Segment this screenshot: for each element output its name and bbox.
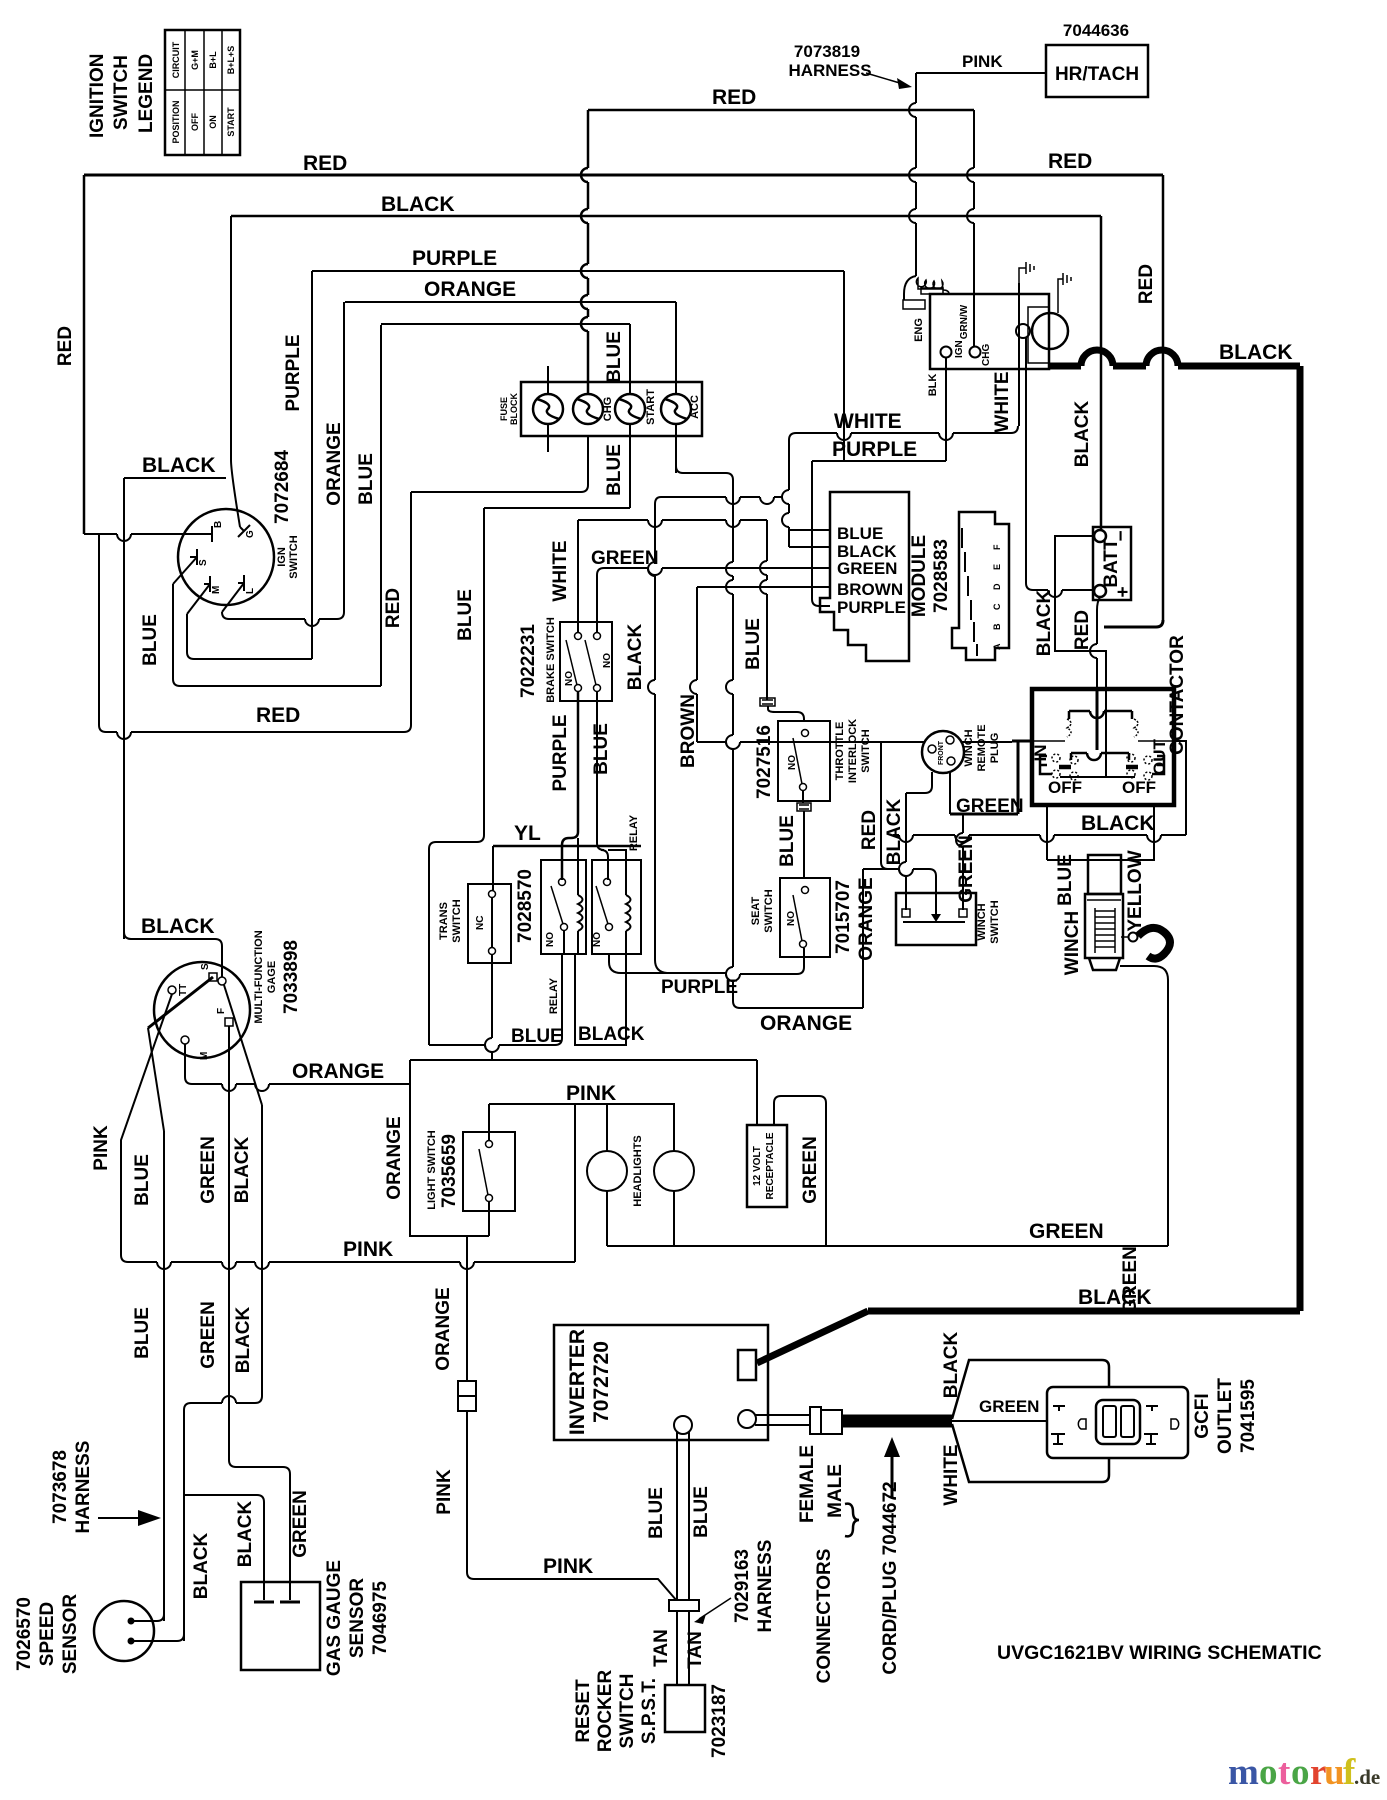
thick BLACK engine cable with humps [1049, 350, 1300, 366]
svg-text:RED: RED [55, 326, 76, 366]
svg-text:ORANGE: ORANGE [856, 877, 877, 960]
wire IN extension [1012, 740, 1032, 743]
wire light switch bottom [488, 1201, 490, 1236]
svg-text:IGN: IGN [954, 340, 965, 358]
wire ORANGE y1084 with hops [192, 1084, 409, 1091]
svg-text:INVERTER: INVERTER [566, 1329, 589, 1435]
wire PURPLE y461 [812, 460, 946, 462]
svg-text:SWITCH: SWITCH [111, 55, 132, 130]
fuse 4 line [675, 302, 677, 473]
svg-text:PINK: PINK [566, 1082, 616, 1105]
wire BLUE trans x429 [428, 849, 430, 1045]
svg-text:o: o [1259, 1752, 1278, 1793]
svg-text:HARNESS: HARNESS [73, 1441, 94, 1534]
wire long horizontal y1059 [410, 1059, 757, 1061]
wire BLUE trans feed x484 [477, 508, 484, 842]
wire plug left pin down [925, 772, 932, 793]
wire WHITE vertical x789 with hops [782, 440, 789, 547]
relay 1 contacts [545, 879, 568, 948]
contactor OUT line [1138, 740, 1174, 742]
svg-text:BLACK: BLACK [232, 1136, 253, 1203]
wire relay1 coil top [577, 838, 579, 866]
svg-text:7046975: 7046975 [370, 1581, 391, 1655]
svg-text:G+M: G+M [190, 50, 200, 70]
wire PURPLE y659 [194, 658, 312, 660]
svg-text:S: S [198, 559, 209, 566]
svg-text:7033898: 7033898 [281, 940, 302, 1014]
svg-text:L: L [245, 588, 256, 594]
svg-text:BLUE: BLUE [511, 1026, 563, 1047]
relay 2 box [592, 860, 641, 954]
gas gauge labels [324, 1560, 391, 1676]
svg-text:BLUE: BLUE [455, 589, 476, 641]
svg-text:S: S [200, 963, 211, 970]
svg-text:ORANGE: ORANGE [433, 1287, 454, 1370]
svg-text:BROWN: BROWN [837, 580, 903, 599]
svg-text:.de: .de [1354, 1765, 1380, 1789]
wire WHITE y520 with hops [578, 520, 767, 527]
svg-text:SWITCH: SWITCH [860, 729, 872, 772]
svg-text:RED: RED [1048, 150, 1092, 173]
svg-text:SWITCH: SWITCH [288, 535, 300, 578]
trans switch contacts [489, 891, 496, 955]
headlight 2 [654, 1104, 694, 1246]
svg-text:RED: RED [256, 704, 300, 727]
svg-text:MULTI-FUNCTION: MULTI-FUNCTION [253, 930, 265, 1023]
wire GREEN y568 with hops [604, 568, 830, 575]
svg-text:+: + [1113, 586, 1134, 597]
svg-text:LEGEND: LEGEND [136, 54, 157, 133]
wire BLACK batt elbow [1096, 531, 1101, 536]
svg-text:BLUE: BLUE [140, 614, 161, 666]
wire PURPLE module pin line [819, 605, 830, 607]
fuse 1 [533, 394, 563, 424]
wire PINK x467 down [467, 1411, 474, 1579]
battery minus terminal [1094, 530, 1106, 542]
module connector pin letters [992, 544, 1002, 650]
wire ORANGE from L diagonal [222, 583, 244, 612]
gage terminal M [181, 1036, 210, 1060]
wire BLACK winch bus y835 with hops [893, 835, 1186, 842]
gcfi labels [1192, 1378, 1259, 1454]
svg-text:BLACK: BLACK [1034, 589, 1055, 656]
svg-text:B+L: B+L [208, 51, 218, 69]
svg-text:7028570: 7028570 [515, 869, 536, 943]
svg-text:D: D [992, 583, 1002, 590]
wire BLACK module pin line [789, 546, 830, 548]
wire GREEN gcfi [952, 1420, 1047, 1422]
svg-text:FEMALE: FEMALE [797, 1445, 818, 1523]
svg-text:IGNITION: IGNITION [87, 54, 108, 138]
wire GREEN gas jog [229, 1460, 290, 1600]
wire GREEN brake x597 [596, 575, 598, 633]
wire trans bottom with hop [485, 955, 492, 1059]
fuse 3 [615, 394, 645, 424]
svg-text:WHITE: WHITE [550, 540, 571, 601]
headlight 1 [587, 1104, 627, 1246]
winch switch box [896, 893, 976, 945]
relay 2 coil [626, 895, 631, 931]
wire ORANGE x467 down [466, 1236, 468, 1381]
svg-text:BLUE: BLUE [743, 618, 764, 670]
svg-text:F: F [216, 1008, 227, 1014]
svg-text:NC: NC [475, 916, 486, 930]
wire ORANGE winch y869 with hop [863, 869, 936, 915]
wire BLACK x655 elbow [655, 497, 661, 504]
wire GREEN 12v loop [774, 1096, 826, 1246]
gage terminal TT [168, 984, 189, 996]
wire BLUE pair vertical [677, 1432, 689, 1600]
svg-text:GREEN: GREEN [198, 1136, 219, 1204]
wire charge y590 with hop [1026, 583, 1094, 597]
winch hook [1121, 928, 1170, 959]
winch switch label [976, 900, 1001, 943]
svg-text:BROWN: BROWN [678, 694, 699, 768]
wire BLACK jog y1403 with hop [184, 1105, 262, 1641]
svg-text:BLACK: BLACK [1072, 400, 1093, 467]
wire engine chg vertical x974 with hops [967, 110, 974, 347]
contactor coil right [1134, 719, 1138, 737]
svg-text:RELAY: RELAY [628, 814, 640, 851]
ignition switch legend title [87, 54, 157, 138]
svg-text:PINK: PINK [543, 1555, 593, 1578]
wire BLACK module y497 with hops [661, 497, 782, 504]
svg-text:OFF: OFF [1048, 778, 1082, 797]
wire PINK y1262 with hops [121, 1255, 575, 1269]
wire ORANGE bus [345, 301, 676, 303]
wire RED engine feed top [588, 109, 974, 112]
wire WHITE engine x1019 [1018, 283, 1020, 426]
light switch contacts [479, 1141, 493, 1202]
ign terminal S [190, 549, 209, 566]
wire ORANGE y1008 [740, 1007, 863, 1009]
inverter output lines to connectors [755, 1415, 812, 1425]
module pin labels [837, 524, 906, 617]
svg-text:BLACK: BLACK [235, 1500, 256, 1567]
svg-text:7041595: 7041595 [1238, 1379, 1259, 1453]
wire relay2 coil top [608, 850, 626, 866]
svg-text:RECEPTACLE: RECEPTACLE [765, 1132, 776, 1199]
svg-text:NO: NO [545, 932, 556, 947]
svg-text:POSITION: POSITION [171, 100, 181, 143]
wire ACC fuse4 down [676, 436, 683, 473]
svg-text:BLOCK: BLOCK [509, 393, 519, 425]
engine CHG terminal [970, 344, 993, 366]
light switch labels [426, 1130, 460, 1209]
wire RED right vertical x1163 [1162, 175, 1165, 620]
svg-text:PINK: PINK [343, 1238, 393, 1261]
svg-text:TRANS: TRANS [438, 902, 450, 940]
wire PURPLE y974 with hop [667, 973, 797, 981]
svg-text:GRN/W: GRN/W [959, 304, 970, 339]
svg-text:F: F [992, 544, 1002, 550]
wire GREEN bottom y1246 [826, 1245, 1168, 1247]
wire B feed y534 with hop [84, 534, 206, 541]
12 volt receptacle box [747, 1125, 787, 1207]
wire relay1 out down [555, 931, 564, 1045]
svg-text:u: u [1324, 1752, 1345, 1793]
svg-text:PINK: PINK [962, 52, 1003, 71]
light switch box [463, 1132, 515, 1211]
svg-text:HR/TACH: HR/TACH [1055, 64, 1139, 85]
cord plug label [880, 1437, 901, 1675]
fuse block label [499, 393, 519, 425]
wire PURPLE x187 [187, 614, 194, 659]
svg-text:BLACK: BLACK [381, 193, 455, 216]
inverter dc output terminal [674, 1416, 692, 1434]
svg-text:MALE: MALE [825, 1464, 846, 1518]
wire BLACK winch sw x906 with hop [899, 793, 906, 910]
svg-text:BLACK: BLACK [233, 1306, 254, 1373]
svg-text:BLUE: BLUE [132, 1154, 153, 1206]
contactor IN line [1032, 740, 1065, 742]
ign terminal B [206, 521, 224, 542]
wire WHITE brake x578 [577, 520, 579, 633]
svg-text:CIRCUIT: CIRCUIT [171, 41, 181, 78]
svg-text:ENG: ENG [913, 318, 925, 342]
svg-text:BLUE: BLUE [646, 1487, 667, 1539]
svg-text:PURPLE: PURPLE [661, 977, 738, 998]
seat switch labels [750, 880, 854, 954]
svg-text:−: − [1111, 530, 1132, 541]
wire relay2 curve to purple [609, 954, 667, 973]
svg-text:MODULE: MODULE [909, 535, 930, 617]
winch motor [1085, 855, 1123, 970]
svg-text:m: m [1228, 1752, 1259, 1793]
svg-text:GREEN: GREEN [198, 1301, 219, 1369]
svg-text:WINCH: WINCH [1062, 911, 1083, 975]
contactor box [1032, 689, 1174, 805]
svg-text:G: G [245, 530, 256, 538]
svg-text:E: E [992, 564, 1002, 570]
svg-text:PLUG: PLUG [989, 733, 1001, 764]
svg-text:RED: RED [383, 588, 404, 628]
connector male [821, 1410, 842, 1434]
wire charge x1026 [1025, 338, 1027, 583]
brake switch label [518, 617, 613, 703]
fuse 3 line [629, 324, 631, 508]
inline fuse connector [458, 1381, 476, 1411]
svg-text:RED: RED [859, 810, 880, 850]
wire WHITE y433 with hops [796, 426, 1018, 440]
svg-text:SWITCH: SWITCH [763, 889, 775, 932]
wire BLUE brake down x597 [596, 692, 598, 843]
wire winch motor bar y860 [1047, 859, 1155, 861]
svg-text:START: START [645, 389, 657, 425]
svg-text:PURPLE: PURPLE [283, 334, 304, 411]
HR/TACH box [1046, 45, 1148, 97]
svg-text:TT: TT [178, 984, 189, 996]
svg-text:BLACK: BLACK [1081, 812, 1155, 835]
svg-text:ORANGE: ORANGE [384, 1116, 405, 1199]
wire WHITE elbow x789 [789, 433, 796, 440]
svg-text:NO: NO [786, 911, 797, 926]
wire PURPLE brake down x578 [577, 692, 580, 832]
svg-text:OFF: OFF [1122, 778, 1156, 797]
speed sensor pins [128, 1614, 185, 1645]
trans switch labels [438, 899, 486, 942]
speed sensor circle [94, 1601, 154, 1661]
wire BLUE fuse2 down [581, 436, 588, 492]
contactor mid bar with dip [1071, 753, 1129, 760]
wire ORANGE winch x863 [862, 869, 864, 1008]
wire PINK y1579 [474, 1579, 677, 1601]
svg-text:7015707: 7015707 [833, 880, 854, 954]
svg-text:BLUE: BLUE [591, 723, 612, 775]
relay 1 box [541, 860, 586, 954]
svg-text:C: C [992, 603, 1002, 610]
wire BLUE gage diagonal [148, 977, 213, 1028]
wire BLUE x164 down [163, 1131, 165, 1621]
svg-text:THROTTLE: THROTTLE [834, 722, 846, 781]
svg-text:7026570: 7026570 [14, 1597, 35, 1671]
svg-text:PINK: PINK [434, 1469, 455, 1515]
svg-text:BLUE: BLUE [691, 1486, 712, 1538]
svg-text:BRAKE SWITCH: BRAKE SWITCH [545, 617, 557, 703]
svg-text:A: A [992, 643, 1002, 650]
seat switch box [780, 878, 830, 957]
svg-text:BLACK: BLACK [191, 1532, 212, 1599]
winch switch contacts [902, 909, 967, 922]
thick BLACK right vertical [1297, 366, 1304, 1311]
wire BLUE from S diagonal [173, 557, 197, 584]
wire GREEN winch sw x963 with hop [956, 814, 963, 910]
wire BLUE relay jog [597, 843, 608, 880]
wire BLACK ign y478 [124, 477, 226, 479]
svg-text:WHITE: WHITE [992, 371, 1013, 432]
svg-text:7029163: 7029163 [732, 1549, 753, 1623]
wire BLACK gcfi [952, 1360, 1109, 1419]
ign switch circle [178, 509, 274, 605]
svg-text:BLUE: BLUE [1055, 854, 1076, 906]
wire BLUE x173 [173, 584, 180, 686]
wire BLACK thick bottom y1311 [868, 1308, 1300, 1315]
wire RED branch x99 [99, 534, 106, 732]
svg-text:GREEN: GREEN [290, 1490, 311, 1558]
svg-text:GAGE: GAGE [266, 961, 278, 993]
svg-text:CHG: CHG [602, 397, 614, 421]
svg-text:7023187: 7023187 [709, 1684, 730, 1758]
svg-text:BLACK: BLACK [941, 1331, 962, 1398]
svg-text:B+L+S: B+L+S [226, 46, 236, 75]
inverter ac output terminal [738, 1410, 756, 1428]
gas gauge terminals [254, 1601, 300, 1604]
wire BLUE y492 [411, 491, 581, 493]
module 7028583 outline [820, 492, 909, 661]
speed sensor labels [14, 1594, 81, 1675]
seat switch contacts [793, 887, 809, 948]
wire PURPLE ign x946 BLK [945, 357, 947, 461]
svg-text:S.P.S.T.: S.P.S.T. [639, 1678, 660, 1744]
fuse 4 [661, 394, 691, 424]
wire PURPLE bus [312, 270, 844, 272]
wire trans top from YL [492, 846, 494, 890]
svg-text:GCFI: GCFI [1192, 1393, 1213, 1438]
svg-text:GREEN: GREEN [979, 1397, 1039, 1416]
wire BLUE bus4 [381, 323, 630, 325]
svg-text:BLUE: BLUE [604, 331, 625, 383]
brake switch box [560, 622, 612, 701]
svg-text:7022231: 7022231 [518, 624, 539, 698]
ign switch label [272, 450, 300, 579]
engine plug grommet [903, 276, 949, 309]
svg-text:ON: ON [208, 115, 218, 129]
svg-text:NO: NO [592, 932, 603, 947]
svg-text:START: START [226, 107, 236, 137]
fuse 1 stub [547, 366, 549, 452]
wire RED from bus to batt [1104, 620, 1163, 627]
engine ground 2 [1058, 273, 1071, 294]
wire BLACK gage y939 [124, 932, 222, 977]
svg-text:7072720: 7072720 [590, 1341, 613, 1423]
svg-text:ROCKER: ROCKER [595, 1670, 616, 1753]
svg-text:GAS GAUGE: GAS GAUGE [324, 1560, 345, 1676]
wire YL y846 [493, 845, 641, 848]
battery plus terminal [1094, 585, 1106, 597]
svg-text:GREEN: GREEN [591, 548, 659, 569]
svg-text:12 VOLT: 12 VOLT [752, 1146, 763, 1186]
trans switch box [468, 884, 511, 963]
harness connector bar [669, 1600, 699, 1611]
engine ground 1 [1019, 262, 1034, 283]
wire BLACK batt loop [1055, 536, 1106, 689]
relay 2 contacts [592, 879, 613, 948]
label 7073678 HARNESS [50, 1441, 161, 1534]
svg-text:7028583: 7028583 [931, 539, 952, 613]
throttle interlock labels [754, 719, 872, 799]
svg-text:SEAT: SEAT [750, 896, 762, 925]
svg-text:BLACK: BLACK [1078, 1286, 1152, 1309]
svg-text:SWITCH: SWITCH [617, 1674, 638, 1749]
svg-text:WHITE: WHITE [941, 1444, 962, 1505]
inverter labels [566, 1329, 613, 1435]
wire GREEN thick y814 [950, 813, 1018, 816]
wire PINK drop x575 [574, 1104, 576, 1262]
wire plug right pin down [949, 772, 951, 814]
engine IGN terminal [941, 340, 966, 358]
throttle interlock box [778, 721, 830, 801]
wire WHITE gcfi [952, 1424, 1109, 1482]
wire PURPLE from M diagonal [187, 584, 210, 614]
wire BLUE trans feed y508 [484, 507, 630, 509]
contactor bottom inner bar [1060, 776, 1135, 778]
svg-text:HARNESS: HARNESS [755, 1540, 776, 1633]
svg-text:B: B [992, 623, 1002, 630]
svg-text:NO: NO [602, 653, 613, 668]
svg-text:RED: RED [1136, 264, 1157, 304]
svg-text:REMOTE: REMOTE [976, 724, 988, 771]
wire OUT to black bus x1186 [1174, 741, 1186, 835]
wire ORANGE gage stub [185, 1044, 192, 1084]
wire ORANGE x733 with hops [726, 480, 740, 1008]
wire PURPLE x844 [843, 271, 845, 461]
module connector pin dashes [962, 528, 977, 656]
svg-text:YELLOW: YELLOW [1125, 850, 1146, 931]
wire BLUE pair labels [646, 1486, 712, 1539]
wire headlight bottom y1246 [607, 1245, 826, 1247]
svg-text:GREEN: GREEN [837, 559, 897, 578]
wire BLACK bus [231, 215, 1101, 218]
wire PURPLE x312 up [311, 271, 313, 659]
svg-text:M: M [211, 586, 222, 594]
relay 1 coil [578, 895, 583, 931]
svg-text:CORD/PLUG 7044672: CORD/PLUG 7044672 [880, 1481, 901, 1674]
contactor right contact [1126, 754, 1164, 780]
svg-text:SENSOR: SENSOR [60, 1594, 81, 1675]
svg-text:BLUE: BLUE [604, 444, 625, 496]
svg-text:BLUE: BLUE [837, 524, 883, 543]
wire BROWN x697 [690, 587, 697, 742]
